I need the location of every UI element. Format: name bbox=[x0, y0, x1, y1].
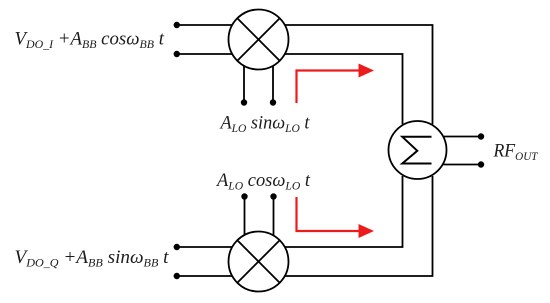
svg-text:VDO_Q +ABB sinωBB t: VDO_Q +ABB sinωBB t bbox=[15, 247, 170, 270]
wire bbox=[244, 197, 246, 236]
node: I upper input terminal bbox=[174, 22, 180, 28]
wire bbox=[285, 54, 403, 124]
node: RF output terminal (lower) bbox=[478, 161, 484, 167]
wire bbox=[177, 53, 233, 55]
wire bbox=[285, 25, 433, 124]
mixer U1 (I-branch multiplier) bbox=[229, 10, 289, 70]
wire bbox=[177, 24, 233, 26]
svg-text:RFOUT: RFOUT bbox=[493, 141, 539, 164]
node: I lower input terminal bbox=[174, 51, 180, 57]
node: Q lower input terminal bbox=[174, 273, 180, 279]
svg-text:ALO sinωLO t: ALO sinωLO t bbox=[219, 113, 311, 136]
wire bbox=[272, 66, 274, 103]
node: RF output terminal (upper) bbox=[478, 133, 484, 139]
signal-flow arrow (red, I path) bbox=[297, 64, 375, 104]
wire bbox=[177, 275, 233, 277]
mixer U2 (Q-branch multiplier) bbox=[229, 232, 289, 292]
wire bbox=[285, 176, 403, 247]
wire bbox=[243, 66, 245, 103]
svg-text:VDO_I +ABB cosωBB t: VDO_I +ABB cosωBB t bbox=[15, 29, 165, 52]
svg-text:ALO cosωLO t: ALO cosωLO t bbox=[215, 170, 311, 193]
node: LO terminal (U1 left) bbox=[241, 99, 247, 105]
node: LO terminal (U2 left) bbox=[241, 193, 247, 199]
wire bbox=[273, 197, 275, 236]
wire bbox=[444, 164, 482, 166]
wire bbox=[444, 136, 482, 138]
signal-flow arrow (red, Q path) bbox=[297, 197, 375, 238]
wire bbox=[177, 246, 233, 248]
node: Q upper input terminal bbox=[174, 244, 180, 250]
node: LO terminal (U1 right) bbox=[270, 99, 276, 105]
wire bbox=[285, 176, 433, 276]
summing junction U3 bbox=[389, 121, 447, 179]
node: LO terminal (U2 right) bbox=[270, 193, 276, 199]
